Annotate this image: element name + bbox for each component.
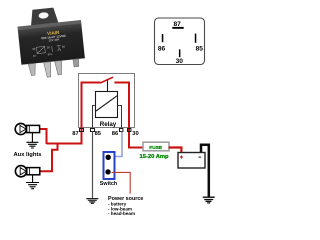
aux light bulb 2 circle [15, 166, 26, 177]
svg-text:87: 87 [72, 131, 78, 137]
svg-text:- head-beam: - head-beam [108, 211, 135, 216]
svg-text:FUSE: FUSE [149, 145, 163, 151]
wire: red top-left horizontal [81, 82, 101, 84]
svg-text:86: 86 [158, 46, 166, 53]
wire: battery negative to ground [201, 145, 209, 197]
aux light bulb 1 socket [27, 125, 40, 132]
wire: step to bottom bulb branch [40, 144, 59, 173]
svg-text:Switch: Switch [100, 181, 117, 187]
pin layout 87 blade bar [172, 27, 183, 29]
aux light bulb 1 circle [15, 123, 26, 134]
wire: red left vertical 87 (inside box down to aux junction) [81, 82, 83, 144]
aux light bulb 2 ground [32, 175, 34, 183]
relay schematic outer box [79, 74, 135, 128]
wire: top bulb branch [40, 128, 48, 144]
aux light bulb 1 ground [31, 133, 33, 143]
svg-text:15-20 Amp: 15-20 Amp [140, 154, 170, 160]
svg-text:86: 86 [112, 131, 119, 137]
wire: red top-right horizontal [114, 82, 130, 84]
relay photo mini schematic [37, 45, 62, 54]
switch contact dot bottom [105, 169, 110, 174]
wire: switch to power source annotation [112, 172, 131, 193]
relay photo body front face [18, 23, 85, 64]
wire: pin 86 blue wire to switch [113, 132, 122, 157]
switch contact dot top [106, 155, 111, 160]
ground for battery [203, 197, 215, 203]
aux light bulb 2 beam triangle [20, 168, 26, 175]
fuse box [143, 142, 169, 151]
aux light bulb 1 beam triangle [20, 125, 26, 132]
relay actuator link [107, 80, 109, 92]
relay photo mounting tab [29, 7, 58, 25]
svg-text:30: 30 [132, 131, 138, 137]
svg-text:Aux lights: Aux lights [14, 152, 42, 158]
wire: red 30 to fuse [128, 147, 144, 149]
relay photo pins [28, 63, 36, 75]
wire: red right vertical 30 [128, 82, 130, 149]
relay coil diagonal [96, 96, 117, 111]
battery plus terminal [180, 156, 183, 159]
battery box [178, 153, 205, 169]
ground for pin 85 [86, 199, 98, 204]
relay bracket left [93, 106, 96, 128]
aux light bulb 2 socket [27, 168, 40, 175]
relay contact blade (red diagonal) [100, 77, 113, 83]
pin layout 85 blade tick [195, 34, 197, 43]
battery minus terminal [198, 157, 201, 158]
pin stub 87 [80, 129, 84, 132]
svg-text:85: 85 [196, 46, 204, 53]
pin layout diagram box [155, 18, 205, 65]
relay photo body top face [17, 20, 81, 30]
pin layout 86 blade tick [162, 34, 164, 42]
wire: aux lights main horizontal to pin 87 [47, 143, 83, 145]
wire: fuse to battery [169, 148, 182, 153]
relay coil box [96, 92, 118, 118]
pin layout 30 blade tick [179, 49, 181, 57]
pin stub 85 [91, 129, 95, 132]
pin stub 30 [128, 129, 131, 132]
svg-text:30: 30 [176, 58, 184, 65]
pin stub 86 [120, 129, 123, 132]
svg-text:85: 85 [95, 131, 102, 137]
relay bracket right [118, 106, 122, 128]
wire: pin 85 ground wire [92, 132, 94, 199]
switch box [104, 152, 115, 179]
svg-text:Relay: Relay [100, 121, 117, 128]
